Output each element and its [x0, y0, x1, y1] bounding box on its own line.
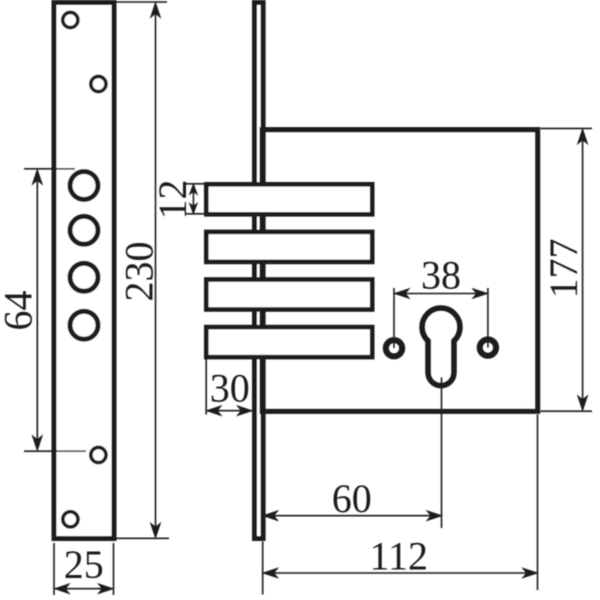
cylinder hole 2: [70, 216, 98, 244]
bolt bar 3: [206, 280, 372, 310]
cylinder hole 4: [70, 311, 98, 339]
screw hole top: [63, 12, 78, 27]
svg-text:112: 112: [370, 534, 429, 579]
dimension 30: [206, 358, 252, 415]
dimension 177: [541, 128, 593, 411]
svg-text:12: 12: [150, 180, 195, 220]
dimension 230: [117, 2, 170, 538]
dimension 60: [263, 515, 442, 517]
screw hole upper: [91, 76, 106, 91]
dimension 38: [394, 288, 488, 348]
cylinder hole 3: [70, 263, 98, 291]
fixing hole left: [386, 340, 402, 356]
svg-text:30: 30: [210, 366, 250, 411]
euro cylinder keyhole: [422, 308, 460, 386]
dimension 64: [24, 169, 86, 451]
svg-text:38: 38: [421, 253, 461, 298]
svg-text:25: 25: [64, 542, 104, 587]
svg-text:64: 64: [0, 291, 41, 331]
faceplate edge-on: [255, 3, 264, 539]
cylinder hole 1: [70, 172, 98, 200]
keyhole centre extension: [441, 378, 443, 529]
bolt bar 1: [206, 184, 372, 214]
dimension 12: [185, 184, 204, 214]
bolt bar 2: [206, 232, 372, 262]
faceplate bottom extension: [262, 542, 264, 595]
screw hole bottom: [63, 512, 78, 527]
faceplate front plate: [54, 3, 114, 539]
fixing hole right: [480, 339, 496, 355]
dimension 25: [54, 543, 114, 595]
svg-text:60: 60: [332, 476, 372, 521]
svg-text:177: 177: [541, 239, 586, 299]
lock body: [262, 130, 538, 412]
svg-text:230: 230: [117, 242, 162, 302]
bolt bar 4: [206, 327, 372, 357]
screw hole lower: [91, 447, 106, 462]
dimension 112: [263, 415, 538, 591]
